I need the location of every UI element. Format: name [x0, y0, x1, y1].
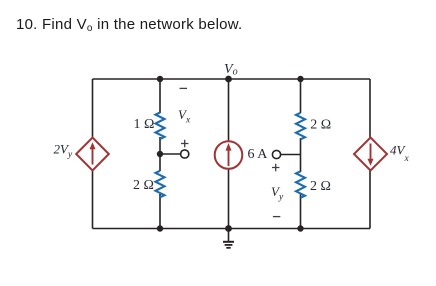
svg-text:Vo: Vo — [224, 62, 238, 78]
svg-text:2 Ω: 2 Ω — [310, 118, 331, 133]
svg-text:Vx: Vx — [178, 107, 191, 126]
svg-text:2 Ω: 2 Ω — [310, 179, 331, 194]
svg-text:2Vy: 2Vy — [54, 142, 73, 161]
svg-text:1 Ω: 1 Ω — [134, 117, 155, 132]
svg-text:Vy: Vy — [271, 184, 284, 203]
svg-text:2 Ω: 2 Ω — [133, 178, 154, 193]
svg-text:4Vx: 4Vx — [390, 143, 409, 165]
svg-text:6 A: 6 A — [248, 147, 269, 162]
